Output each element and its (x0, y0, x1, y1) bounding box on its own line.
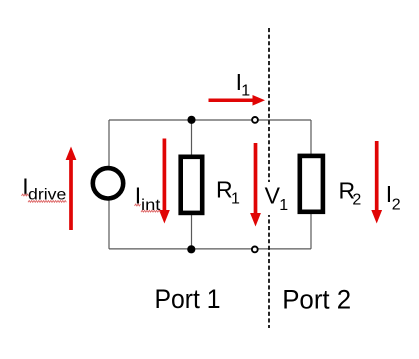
svg-text:Port 1: Port 1 (155, 284, 221, 314)
label I_drive (22, 173, 66, 203)
wire R1 branch (191, 120, 193, 249)
spellcheck squiggle under drive (28, 201, 66, 203)
port terminal open circle bottom (252, 247, 258, 253)
svg-text:V: V (265, 183, 281, 209)
port terminal open circle top (252, 117, 258, 123)
label R_2 (339, 177, 362, 208)
resistor R1 body (181, 157, 203, 213)
svg-text:Port 2: Port 2 (282, 284, 351, 314)
label I_1 (236, 69, 251, 100)
spellcheck squiggle under int (141, 210, 160, 212)
current arrow I_1 (right) (209, 95, 266, 106)
label R_1 (216, 177, 240, 208)
wire top (node A to node B) (109, 119, 311, 121)
resistor R2 body (300, 156, 323, 212)
spellcheck squiggle under I (I_drive) (22, 194, 29, 196)
current arrow I_drive (up) (66, 147, 77, 231)
current source U1 (93, 168, 123, 198)
svg-text:1: 1 (241, 83, 250, 100)
current arrow I_2 (down) (371, 141, 382, 224)
svg-text:1: 1 (279, 197, 288, 214)
node junction dot top (187, 116, 195, 124)
port boundary dashed line (268, 28, 270, 328)
wire right branch (through R2) (310, 120, 312, 249)
svg-text:2: 2 (392, 197, 401, 214)
svg-text:2: 2 (352, 192, 361, 209)
node junction dot bottom (187, 245, 195, 253)
label I_2 (386, 181, 401, 214)
label I_int (135, 183, 161, 214)
svg-text:1: 1 (231, 191, 240, 208)
spellcheck squiggle under I (I_int) (135, 204, 141, 206)
wire bottom (109, 248, 311, 250)
label V_1 (265, 183, 289, 214)
wire left branch (through current source) (108, 120, 110, 249)
voltage arrow V_1 (down) (250, 143, 261, 227)
current arrow I_int (down) (159, 139, 170, 224)
white background of V1 label over dashed line (262, 182, 289, 215)
